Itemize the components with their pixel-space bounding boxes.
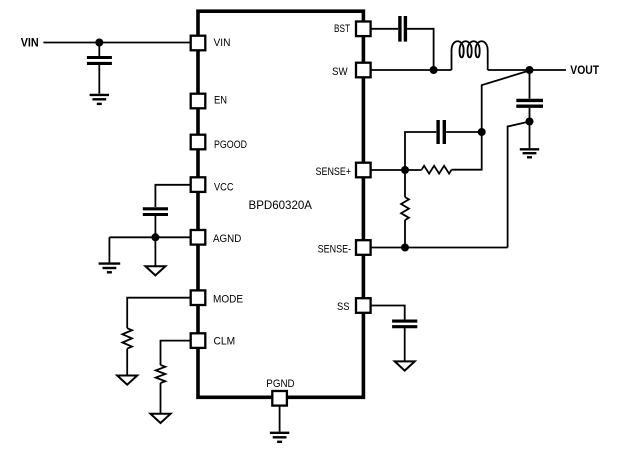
inductor L1 bbox=[452, 41, 488, 70]
pin PGOOD bbox=[191, 135, 206, 150]
svg-text:SENSE-: SENSE- bbox=[318, 243, 352, 255]
svg-text:BST: BST bbox=[334, 23, 350, 35]
ground G3 (AGND triangle ground) bbox=[145, 266, 165, 275]
svg-text:SW: SW bbox=[332, 66, 348, 78]
pin PGND bbox=[272, 391, 287, 406]
wire BST to C3 bbox=[371, 28, 399, 30]
wire VIN input bbox=[43, 42, 190, 44]
resistor R4 (divider) bbox=[401, 197, 409, 220]
svg-text:VIN: VIN bbox=[214, 37, 231, 49]
capacitor C1 (input cap) bbox=[87, 58, 112, 64]
wire PGND to earth ground bbox=[279, 406, 281, 432]
ground G8 (PGND earth ground) bbox=[270, 433, 289, 442]
pin BST bbox=[356, 22, 371, 37]
svg-text:PGND: PGND bbox=[266, 378, 294, 390]
wire R1 to triangle ground bbox=[126, 349, 128, 376]
pin AGND bbox=[191, 230, 206, 245]
junction dot output ground node bbox=[526, 118, 534, 126]
wire SS to C6 bbox=[371, 306, 405, 320]
wire R2 to triangle ground bbox=[160, 383, 162, 414]
capacitor C5 (feed-forward) bbox=[438, 120, 444, 144]
wire SENSE+ bbox=[371, 169, 422, 171]
wire AGND node to triangle ground bbox=[154, 237, 156, 266]
wire VOUT node to C4 bbox=[529, 70, 531, 99]
svg-text:AGND: AGND bbox=[213, 233, 241, 245]
resistor R3 (SENSE+ series) bbox=[422, 166, 452, 174]
pin SENSE- bbox=[356, 240, 371, 255]
wire C5 to feedback node bbox=[446, 131, 482, 133]
capacitor C6 (soft-start) bbox=[392, 321, 417, 327]
ground G6 (output cap earth ground) bbox=[520, 149, 539, 157]
wire C1 to ground bbox=[98, 65, 100, 94]
wire C2 to AGND node bbox=[154, 216, 156, 237]
ground G5 (CLM triangle ground) bbox=[151, 414, 171, 423]
svg-text:VIN: VIN bbox=[21, 37, 39, 49]
svg-text:SENSE+: SENSE+ bbox=[316, 166, 352, 178]
junction dot SW node bbox=[430, 66, 438, 74]
capacitor C2 (VCC bypass) bbox=[143, 209, 168, 215]
svg-text:CLM: CLM bbox=[214, 336, 236, 348]
ground G1 (input cap earth ground) bbox=[90, 95, 109, 104]
junction dot feedback node bbox=[478, 128, 486, 136]
IC U1 body (BPD60320A) bbox=[198, 11, 363, 397]
wire AGND to earth ground bbox=[108, 237, 110, 262]
junction dot AGND node bbox=[151, 233, 159, 241]
pin CLM bbox=[191, 333, 206, 348]
wire ground node to earth ground bbox=[529, 122, 531, 149]
wire R4 to SENSE- node bbox=[404, 220, 406, 247]
wire C6 to triangle ground bbox=[404, 328, 406, 361]
ground G4 (MODE triangle ground) bbox=[117, 376, 137, 385]
wire SW bbox=[371, 69, 452, 71]
svg-text:EN: EN bbox=[214, 94, 227, 106]
wire MODE to R1 bbox=[127, 298, 191, 329]
junction dot SENSE- node bbox=[401, 244, 409, 252]
pin SENSE+ bbox=[356, 163, 371, 178]
wire AGND bbox=[109, 236, 190, 238]
resistor R1 (MODE) bbox=[122, 328, 132, 348]
svg-text:VCC: VCC bbox=[214, 181, 234, 193]
ground G2 (AGND earth ground) bbox=[99, 264, 121, 273]
capacitor C3 (bootstrap) bbox=[400, 16, 406, 42]
junction dot VIN node bbox=[95, 39, 103, 47]
wire VOUT output bbox=[530, 69, 566, 71]
wire SENSE- up to output ground node bbox=[508, 122, 530, 248]
svg-text:PGOOD: PGOOD bbox=[214, 139, 247, 151]
wire CLM to R2 bbox=[161, 341, 191, 365]
pin SS bbox=[356, 298, 371, 313]
wire SENSE+ node up to C5 bbox=[405, 132, 436, 170]
wire C4 to ground node bbox=[529, 108, 531, 122]
svg-text:VOUT: VOUT bbox=[570, 65, 599, 77]
capacitor C4 (output cap) bbox=[516, 100, 543, 106]
wire SENSE- bbox=[371, 247, 508, 249]
wire VCC to C2 bbox=[155, 185, 190, 207]
svg-text:MODE: MODE bbox=[213, 293, 243, 305]
capacitor C1 top lead wire bbox=[98, 43, 100, 57]
wire SENSE+ node down to R4 bbox=[404, 170, 406, 197]
wire L1 to VOUT node bbox=[488, 69, 530, 71]
resistor R2 (CLM) bbox=[156, 365, 166, 383]
wire C3 to SW node bbox=[407, 29, 434, 70]
ground G7 (SS triangle ground) bbox=[395, 361, 415, 370]
pin SW bbox=[356, 63, 371, 78]
pin VIN bbox=[191, 36, 206, 51]
svg-text:SS: SS bbox=[337, 301, 350, 313]
junction dot SENSE+ node bbox=[401, 166, 409, 174]
svg-text:BPD60320A: BPD60320A bbox=[249, 200, 313, 212]
pin MODE bbox=[191, 290, 206, 305]
pin VCC bbox=[191, 177, 206, 192]
wire VOUT node to feedback node (diagonal) bbox=[482, 71, 530, 133]
pin EN bbox=[191, 94, 206, 109]
junction dot VOUT node bbox=[526, 66, 534, 74]
wire feedback node down to R3 bbox=[452, 132, 482, 170]
